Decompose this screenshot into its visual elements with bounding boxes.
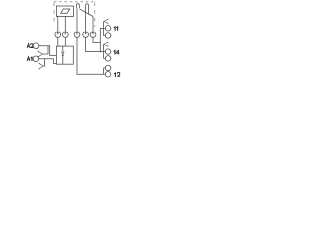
socket contact 4 xyxy=(83,32,89,38)
socket arrow 5 xyxy=(92,32,94,35)
coil K1 box xyxy=(56,6,73,16)
terminal 14 lower circle xyxy=(105,56,111,62)
A1 fork bus xyxy=(43,59,45,66)
wire A2 to box xyxy=(39,46,57,56)
junction xyxy=(100,51,102,53)
wire socket5 jog xyxy=(93,37,100,42)
coil pin 1 wire xyxy=(57,16,59,33)
wire socket2 to input box xyxy=(64,38,66,47)
terminal 12 group bus xyxy=(104,68,106,74)
terminal A2 label xyxy=(27,44,30,48)
contact pin common wire xyxy=(92,17,94,34)
diode D1 xyxy=(62,46,64,52)
wire A1 to box xyxy=(39,59,57,64)
socket arrow 4 xyxy=(85,32,87,35)
wire socket3 to terminal 12 xyxy=(77,37,105,74)
wire riser to terminal 11 xyxy=(100,28,105,51)
wire socket1 to input box xyxy=(57,38,59,47)
contact pin NC wire xyxy=(85,5,87,33)
coil pin 2 wire xyxy=(64,16,66,33)
contact pin NO wire xyxy=(76,8,78,33)
terminal A1 label xyxy=(27,57,30,61)
A2 fork bus xyxy=(42,46,48,54)
terminal 12 upper circle xyxy=(105,65,111,71)
terminal 14 group bus xyxy=(104,44,106,58)
socket contact 1 (open circle) xyxy=(55,32,61,38)
contact moving blade xyxy=(80,9,93,17)
coil symbol (parallelogram) xyxy=(61,9,70,13)
label 11 xyxy=(114,27,116,31)
terminal 11 lower circle xyxy=(105,33,111,39)
contact NO fixed post xyxy=(76,4,79,9)
label 14 xyxy=(114,50,116,54)
socket arrow 1 xyxy=(57,32,59,35)
contact NC fixed post xyxy=(86,4,89,14)
socket arrow 3 xyxy=(76,32,78,35)
socket contact 2 xyxy=(62,32,68,38)
terminal A1 screw circle xyxy=(33,56,39,62)
terminal 14 fork xyxy=(104,42,108,47)
A2 fork terminal xyxy=(38,51,42,58)
terminal A2 screw circle xyxy=(33,43,39,49)
relay module dashed outline xyxy=(54,1,95,3)
socket contact 3 xyxy=(74,32,80,38)
label 12 xyxy=(114,73,116,77)
terminal 14 screw circle xyxy=(105,49,111,55)
terminal 11 group bus xyxy=(104,21,106,35)
terminal 12 screw circle xyxy=(105,72,111,78)
socket contact 5 xyxy=(90,32,96,38)
socket arrow 2 xyxy=(64,32,66,35)
input circuit box xyxy=(56,46,73,64)
wire socket4 to terminal 14 xyxy=(86,37,106,51)
terminal 11 screw circle xyxy=(105,26,111,32)
A1 fork terminal xyxy=(39,63,43,70)
terminal 11 fork xyxy=(104,19,108,24)
